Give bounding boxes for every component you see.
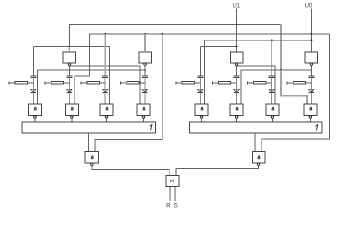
wire B3 output line [237, 65, 276, 104]
or box right [189, 122, 322, 133]
svg-text:R: R [166, 203, 171, 210]
nand gate G5 [195, 104, 208, 116]
wire B2 output to cap [144, 65, 146, 76]
nand gate G4 [137, 104, 150, 116]
wire U0 branch left corner [95, 34, 162, 152]
wire R3 main vertical lower [271, 77, 273, 104]
xor label [170, 179, 172, 181]
wire U0 vertical [310, 9, 312, 53]
or box left [22, 122, 156, 133]
resistor RL4 [120, 82, 122, 85]
svg-text:S: S [174, 203, 178, 210]
capacitor CL4 [142, 75, 148, 77]
wire R2 main vertical lower [236, 77, 238, 104]
wire B2 input stub grey [144, 34, 146, 52]
wire inv-U0 to r4 control grey [281, 70, 307, 104]
diode DR1 [198, 89, 203, 92]
wire B4 output line [241, 70, 311, 104]
capacitor CL2 [66, 75, 72, 77]
nand gate G3 [100, 104, 113, 116]
wire R4 main vertical lower [310, 77, 312, 104]
wire U0 to col2 control [75, 76, 90, 104]
combiner left label [91, 156, 93, 159]
capacitor CL3 [102, 75, 108, 77]
resistor RR3 [247, 82, 249, 85]
inverter B1 [63, 52, 76, 63]
wire L1 main vertical lower [32, 77, 34, 104]
junction dot [271, 39, 273, 41]
wire output S [174, 187, 176, 201]
wire feedback bus vertical grey [280, 25, 282, 71]
wire B4 output to cap [310, 65, 312, 76]
combiner left bubble [91, 163, 94, 166]
resistor RL2 [44, 82, 46, 85]
resistor RL3 [80, 82, 82, 85]
inverter B4 [305, 52, 318, 63]
nand gate G2 [65, 104, 78, 116]
junction dot [311, 33, 313, 35]
wire R2 main vertical upper [236, 65, 238, 76]
wire R1 main vertical lower [199, 77, 201, 104]
nand gate G6 [230, 104, 243, 116]
wire left or-box output [87, 133, 89, 151]
diode DR2 [234, 89, 239, 92]
junction dot [236, 65, 238, 67]
wire B2 output line [38, 70, 145, 104]
wire B1 output line [69, 65, 140, 104]
wire right or-box output [254, 133, 256, 151]
capacitor CR4 [308, 75, 314, 77]
wire R4 main vertical upper [310, 65, 312, 76]
diode DL2 [67, 89, 72, 92]
nand gate G7 [266, 104, 279, 116]
nand gate G1 [28, 104, 41, 116]
junction dot [311, 69, 313, 71]
resistor RR2 [211, 82, 213, 85]
capacitor CR1 [197, 75, 203, 77]
wire L3 main vertical lower [104, 77, 106, 104]
junction dot [69, 45, 71, 47]
junction dot [236, 24, 238, 26]
diode DL3 [103, 89, 108, 92]
diode DR3 [269, 89, 274, 92]
wire L1 main vertical upper [32, 46, 34, 76]
wire right combiner to xor [176, 166, 259, 176]
junction dot [311, 39, 313, 41]
svg-text:U0: U0 [305, 3, 313, 9]
capacitor CL1 [30, 75, 36, 77]
inverter B2 [139, 52, 152, 63]
diode DR4 [309, 89, 314, 92]
junction dot [104, 33, 106, 35]
junction dot [139, 82, 141, 84]
junction dot [69, 65, 71, 67]
wire L2 main vertical upper [68, 65, 70, 76]
combiner right label [258, 156, 260, 159]
junction dot [144, 69, 146, 71]
wire L4 main vertical lower [144, 77, 146, 104]
resistor RL1 [8, 82, 10, 85]
wire L4 main vertical upper [144, 65, 146, 76]
inverter B3 [230, 52, 243, 63]
wire U1 line left segment [33, 45, 109, 47]
wire output R [169, 187, 171, 201]
wire inv-U0 corner to nand G3 [109, 46, 111, 104]
junction dot [236, 45, 238, 47]
wire bus U0 branch right corner [262, 34, 330, 152]
diode DL1 [31, 89, 36, 92]
nand gate G8 [304, 104, 317, 116]
wire R3 main vertical upper [271, 40, 273, 76]
or box right label 1 [315, 124, 318, 130]
combiner gate left [85, 151, 99, 163]
wire U1 line right half [200, 45, 236, 47]
or box left label 1 [149, 124, 152, 130]
junction dot [280, 69, 282, 71]
xor box [166, 176, 179, 187]
wire U1 vertical [236, 9, 238, 53]
capacitor CR3 [269, 75, 275, 77]
wire R1 main vertical upper [199, 46, 201, 76]
wire bus U0 horizontal [90, 34, 330, 76]
diode DL4 [142, 89, 147, 92]
wire B1 input stub grey [68, 46, 70, 52]
wire bus U0-to-r1 line [204, 40, 311, 104]
combiner gate right [252, 151, 264, 163]
combiner right bubble [257, 163, 260, 166]
wire feedback bus top [69, 25, 281, 47]
junction dot [161, 33, 163, 35]
capacitor CR2 [234, 75, 240, 77]
wire L3 main vertical upper [104, 34, 106, 76]
junction dot [144, 33, 146, 35]
resistor RR1 [175, 82, 177, 85]
wire left combiner to xor [92, 166, 169, 176]
resistor RR4 [286, 82, 288, 85]
wire L2 main vertical lower [68, 77, 70, 104]
